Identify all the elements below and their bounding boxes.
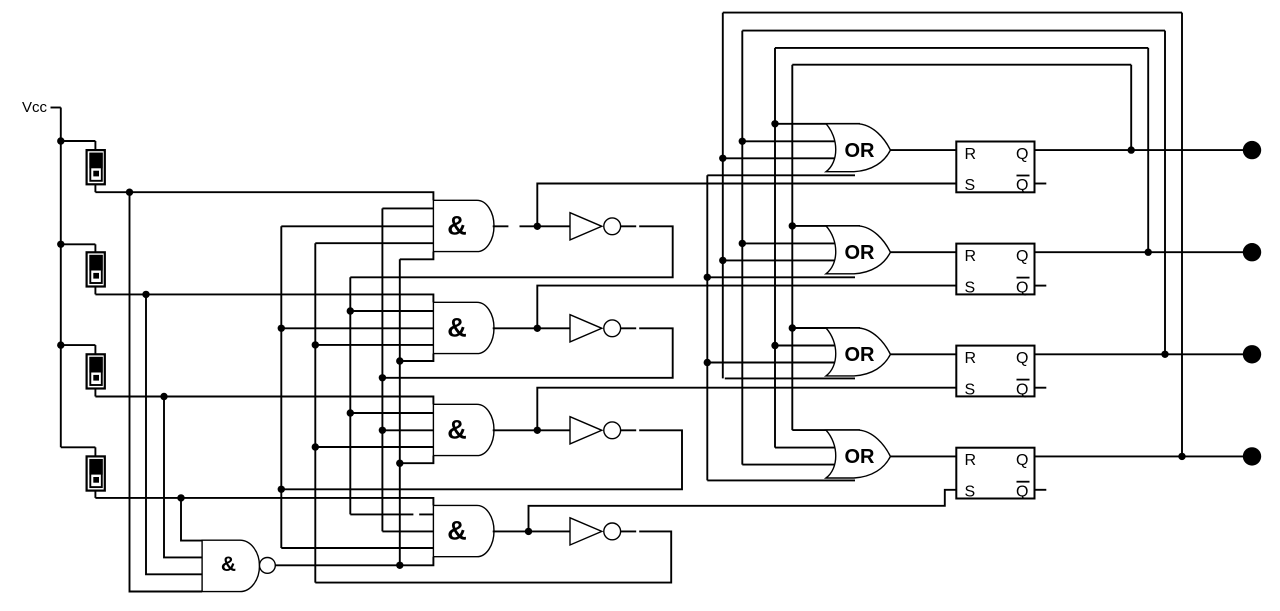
junction input row 4 xyxy=(177,494,184,501)
wire FF1 Q to OR3 pin 1 xyxy=(792,327,860,329)
wire switch S4 top lead xyxy=(94,447,96,456)
wire FF2 Q to OR1 pin 1 xyxy=(775,123,860,125)
wire AND4 output xyxy=(493,530,529,532)
junction FF4 Q at OR2 pin 3 xyxy=(719,257,726,264)
svg-text:&: & xyxy=(447,515,467,545)
wire FF3 Q to OR2 pin 2 xyxy=(742,242,836,244)
wire inverter1 feedback to AND4 pin B xyxy=(350,513,433,515)
junction inv2 feedback loop tap xyxy=(379,374,386,381)
junction FF2 Q at OR3 pin 2 xyxy=(771,342,778,349)
wire inverter3 output loop xyxy=(281,430,682,489)
svg-text:R: R xyxy=(965,146,977,163)
wire NAND feedback to AND1 pin E xyxy=(400,252,434,260)
wire top feedback 3 xyxy=(742,30,1165,32)
junction FF3 Q feedback xyxy=(1161,351,1168,358)
svg-text:&: & xyxy=(447,210,467,240)
wire inverter4 feedback vertical xyxy=(314,243,316,582)
wire reset column to OR3 pin 3 xyxy=(707,362,838,364)
wire FF3 Q output xyxy=(1035,353,1244,355)
wire NAND feedback to AND3 pin E xyxy=(400,456,434,464)
wire FF1 Qbar stub xyxy=(1035,183,1047,185)
svg-text:Q: Q xyxy=(1016,279,1028,296)
wire FF1 Q to OR4 pin 1 xyxy=(792,429,860,431)
svg-text:S: S xyxy=(965,381,976,398)
svg-text:&: & xyxy=(447,312,467,342)
junction FF4 Q feedback xyxy=(1178,453,1185,460)
wire switch S2 top lead xyxy=(94,244,96,252)
NAND gate U5 xyxy=(202,540,275,591)
AND gate U2 xyxy=(433,302,494,353)
junction FF1 Q at OR2 pin 1 xyxy=(789,222,796,229)
svg-text:Q: Q xyxy=(1016,177,1028,194)
wire FF4 Q feedback riser xyxy=(1181,13,1183,457)
wire inverter2 output loop xyxy=(382,328,672,378)
svg-text:OR: OR xyxy=(845,344,876,366)
wire OR4 output to FF4 R xyxy=(890,455,956,457)
flip-flop FF4 (RS latch) xyxy=(956,448,1034,501)
wire inverter1 input xyxy=(537,225,570,227)
wire switch S3 bottom lead xyxy=(94,389,96,397)
junction AND3 output node xyxy=(534,427,541,434)
wire inverter3 feedback to AND4 pin D xyxy=(281,547,433,549)
junction inv1 feedback at AND3 xyxy=(347,409,354,416)
wire input row 3 (switch S3 to AND3) xyxy=(95,397,433,405)
svg-text:Q: Q xyxy=(1016,248,1028,265)
junction FF3 Q at OR2 pin 2 xyxy=(739,240,746,247)
junction inv2 feedback at AND3 xyxy=(379,427,386,434)
flip-flop FF3 (RS latch) xyxy=(956,346,1034,399)
wire inverter1 feedback to AND2 pin B xyxy=(350,310,433,312)
junction NAND feedback at AND3 xyxy=(396,460,403,467)
AND gate U4 xyxy=(433,505,494,556)
wire AND2 output xyxy=(493,327,538,329)
wire switch S3 top lead xyxy=(94,345,96,354)
output terminal 2 xyxy=(1243,243,1261,261)
output terminal 3 xyxy=(1243,345,1261,363)
wire input row 4 (switch S4 to AND4) xyxy=(95,498,433,506)
wire FF3 Q feedback riser xyxy=(1164,31,1166,355)
wire input 3 branch to NAND xyxy=(164,397,202,558)
svg-text:Q: Q xyxy=(1016,146,1028,163)
wire inverter3 input xyxy=(537,429,570,431)
wire inverter4 feedback to AND2 pin D xyxy=(315,344,433,346)
wire FF3 Q feedback vertical xyxy=(741,31,743,465)
svg-text:&: & xyxy=(447,414,467,444)
svg-text:R: R xyxy=(965,248,977,265)
wire input row 2 (switch S2 to AND2) xyxy=(95,294,433,302)
wire FF2 Q feedback riser xyxy=(1147,48,1149,252)
wire FF3 Q to OR4 pin 3 xyxy=(742,464,838,466)
wire input row 1 (switch S1 to AND1) xyxy=(95,192,433,200)
switch S1 (input button 1) xyxy=(87,150,105,184)
junction input row 3 xyxy=(160,393,167,400)
wire inverter1 feedback vertical xyxy=(349,277,351,514)
junction NAND output branch xyxy=(396,562,403,569)
OR gate U6 xyxy=(826,124,890,172)
junction rail tap 1 xyxy=(57,137,64,144)
flip-flop FF1 (RS latch) xyxy=(956,142,1034,195)
svg-text:S: S xyxy=(965,177,976,194)
switch S3 (input button 3) xyxy=(87,354,105,388)
wire inverter2 feedback to AND1 pin B xyxy=(382,207,433,209)
wire inverter1 feedback to AND3 pin B xyxy=(350,412,433,414)
inverter N2 xyxy=(570,315,621,342)
svg-text:S: S xyxy=(965,483,976,500)
wire Vcc label stub xyxy=(51,107,61,109)
wire inverter3 feedback to AND1 pin C xyxy=(281,225,433,227)
wire FF4 Qbar stub xyxy=(1035,489,1047,491)
wire switch S2 bottom lead xyxy=(94,287,96,295)
junction inv4 feedback at AND3 xyxy=(312,443,319,450)
wire FF2 Q feedback vertical xyxy=(774,48,776,448)
wire AND3 set branch to FF3 xyxy=(537,388,956,431)
wire inverter2 input xyxy=(537,327,570,329)
junction FF3 Q at OR1 pin 2 xyxy=(739,138,746,145)
wire reset column to OR2 pin 4 xyxy=(707,276,855,278)
wire inverter4 feedback to AND3 pin D xyxy=(315,446,433,448)
wire FF4 Q to OR2 pin 3 xyxy=(723,259,838,261)
switch S2 (input button 2) xyxy=(87,252,105,286)
wire top feedback 2 xyxy=(775,47,1148,49)
junction input row 2 xyxy=(142,291,149,298)
wire inverter2 feedback to AND3 pin C xyxy=(382,429,433,431)
junction rail tap 3 xyxy=(57,341,64,348)
wire inverter3 feedback vertical xyxy=(280,226,282,548)
junction FF4 Q at OR1 pin 3 xyxy=(719,155,726,162)
wire FF4 Q feedback vertical xyxy=(722,13,724,379)
junction AND4 output node xyxy=(525,528,532,535)
junction NAND feedback at AND2 xyxy=(396,357,403,364)
wire FF4 Q output xyxy=(1035,455,1244,457)
svg-text:OR: OR xyxy=(845,242,876,264)
wire FF3 Qbar stub xyxy=(1035,387,1047,389)
junction AND1 output node xyxy=(534,223,541,230)
junction FF1 Q at OR3 pin 1 xyxy=(789,324,796,331)
wire switch S4 bottom lead xyxy=(94,491,96,498)
svg-text:R: R xyxy=(965,350,977,367)
wire Vcc supply rail xyxy=(61,108,96,448)
wire FF1 Q feedback vertical xyxy=(791,65,793,430)
wire inverter4 input xyxy=(529,530,571,532)
junction inv1 feedback at AND2 xyxy=(347,307,354,314)
wire OR3 output to FF3 R xyxy=(890,353,956,355)
wire FF1 Q feedback riser xyxy=(1130,65,1132,150)
wire AND1 output xyxy=(493,225,538,227)
wire FF1 Q output xyxy=(1035,149,1244,151)
wire input 1 branch to NAND xyxy=(130,192,203,591)
wire switch S1 top lead xyxy=(94,141,96,150)
svg-text:R: R xyxy=(965,452,977,469)
wire switch S1 bottom lead xyxy=(94,184,96,192)
output terminal 1 xyxy=(1243,141,1261,159)
wire NAND feedback vertical xyxy=(399,259,401,565)
wire reset column to OR1 pin 4 xyxy=(707,174,855,176)
junction input row 1 xyxy=(126,189,133,196)
wire FF4 Q to OR1 pin 3 xyxy=(723,157,838,159)
wire OR1 output to FF1 R xyxy=(890,149,956,151)
junction reset at OR2 pin 4 xyxy=(704,274,711,281)
svg-text:Q: Q xyxy=(1016,452,1028,469)
OR gate U7 xyxy=(826,226,890,274)
wire inverter4 output loop xyxy=(315,531,671,582)
wire reset column vertical xyxy=(706,175,708,480)
OR gate U9 xyxy=(826,430,890,478)
wire input 2 branch to NAND xyxy=(146,294,202,574)
wire FF2 Q to OR3 pin 2 xyxy=(775,345,836,347)
wire inverter4 feedback to AND1 pin D xyxy=(315,242,433,244)
wire top feedback 4 xyxy=(723,12,1182,14)
inverter N3 xyxy=(570,417,621,444)
wire AND4 set branch rise xyxy=(529,490,957,532)
wire inverter1 output loop xyxy=(350,226,672,277)
junction inv3 feedback at AND2 xyxy=(278,325,285,332)
junction AND2 output node xyxy=(534,325,541,332)
wire OR2 output to FF2 R xyxy=(890,251,956,253)
wire inverter3 feedback to AND2 pin C xyxy=(281,327,433,329)
wire AND1 set branch to FF1 xyxy=(537,184,956,227)
svg-text:Vcc: Vcc xyxy=(22,99,48,116)
junction FF2 Q at OR1 pin 1 xyxy=(771,120,778,127)
AND gate U1 xyxy=(433,200,494,251)
wire inverter2 feedback vertical xyxy=(381,208,383,531)
wire FF2 Q to OR4 pin 2 xyxy=(775,447,836,449)
junction inv3 feedback loop tap xyxy=(278,486,285,493)
flip-flop FF2 (RS latch) xyxy=(956,244,1034,297)
svg-text:Q: Q xyxy=(1016,350,1028,367)
junction rail tap 2 xyxy=(57,241,64,248)
wire input 4 branch to NAND xyxy=(181,498,202,541)
svg-text:S: S xyxy=(965,279,976,296)
output terminal 4 xyxy=(1243,447,1261,465)
inverter N1 xyxy=(570,213,621,240)
wire reset column to OR4 pin 4 xyxy=(707,479,855,481)
wire FF2 Q output xyxy=(1035,251,1244,253)
OR gate U8 xyxy=(826,328,890,376)
wire NAND feedback to AND2 pin E xyxy=(400,354,434,361)
wire top feedback 1 xyxy=(792,64,1131,66)
junction FF2 Q feedback xyxy=(1145,249,1152,256)
switch S4 (input button 4) xyxy=(87,456,105,490)
wire FF4 Q to OR3 pin 4 xyxy=(725,377,855,379)
svg-text:Q: Q xyxy=(1016,381,1028,398)
svg-text:OR: OR xyxy=(845,446,876,468)
wire FF2 Qbar stub xyxy=(1035,285,1047,287)
svg-text:Q: Q xyxy=(1016,483,1028,500)
junction FF1 Q feedback xyxy=(1128,146,1135,153)
wire FF1 Q to OR2 pin 1 xyxy=(792,225,860,227)
wire NAND output to AND4 pin E xyxy=(275,557,433,566)
wire FF3 Q to OR1 pin 2 xyxy=(742,140,836,142)
junction inv4 feedback at AND2 xyxy=(312,341,319,348)
AND gate U3 xyxy=(433,404,494,455)
svg-text:&: & xyxy=(221,553,236,576)
junction reset at OR3 pin 3 xyxy=(704,359,711,366)
wire AND3 output xyxy=(493,429,538,431)
wire inverter2 feedback to AND4 pin C xyxy=(382,530,433,532)
wire AND2 set branch to FF2 xyxy=(537,286,956,329)
svg-text:OR: OR xyxy=(845,140,876,162)
inverter N4 xyxy=(570,518,621,545)
